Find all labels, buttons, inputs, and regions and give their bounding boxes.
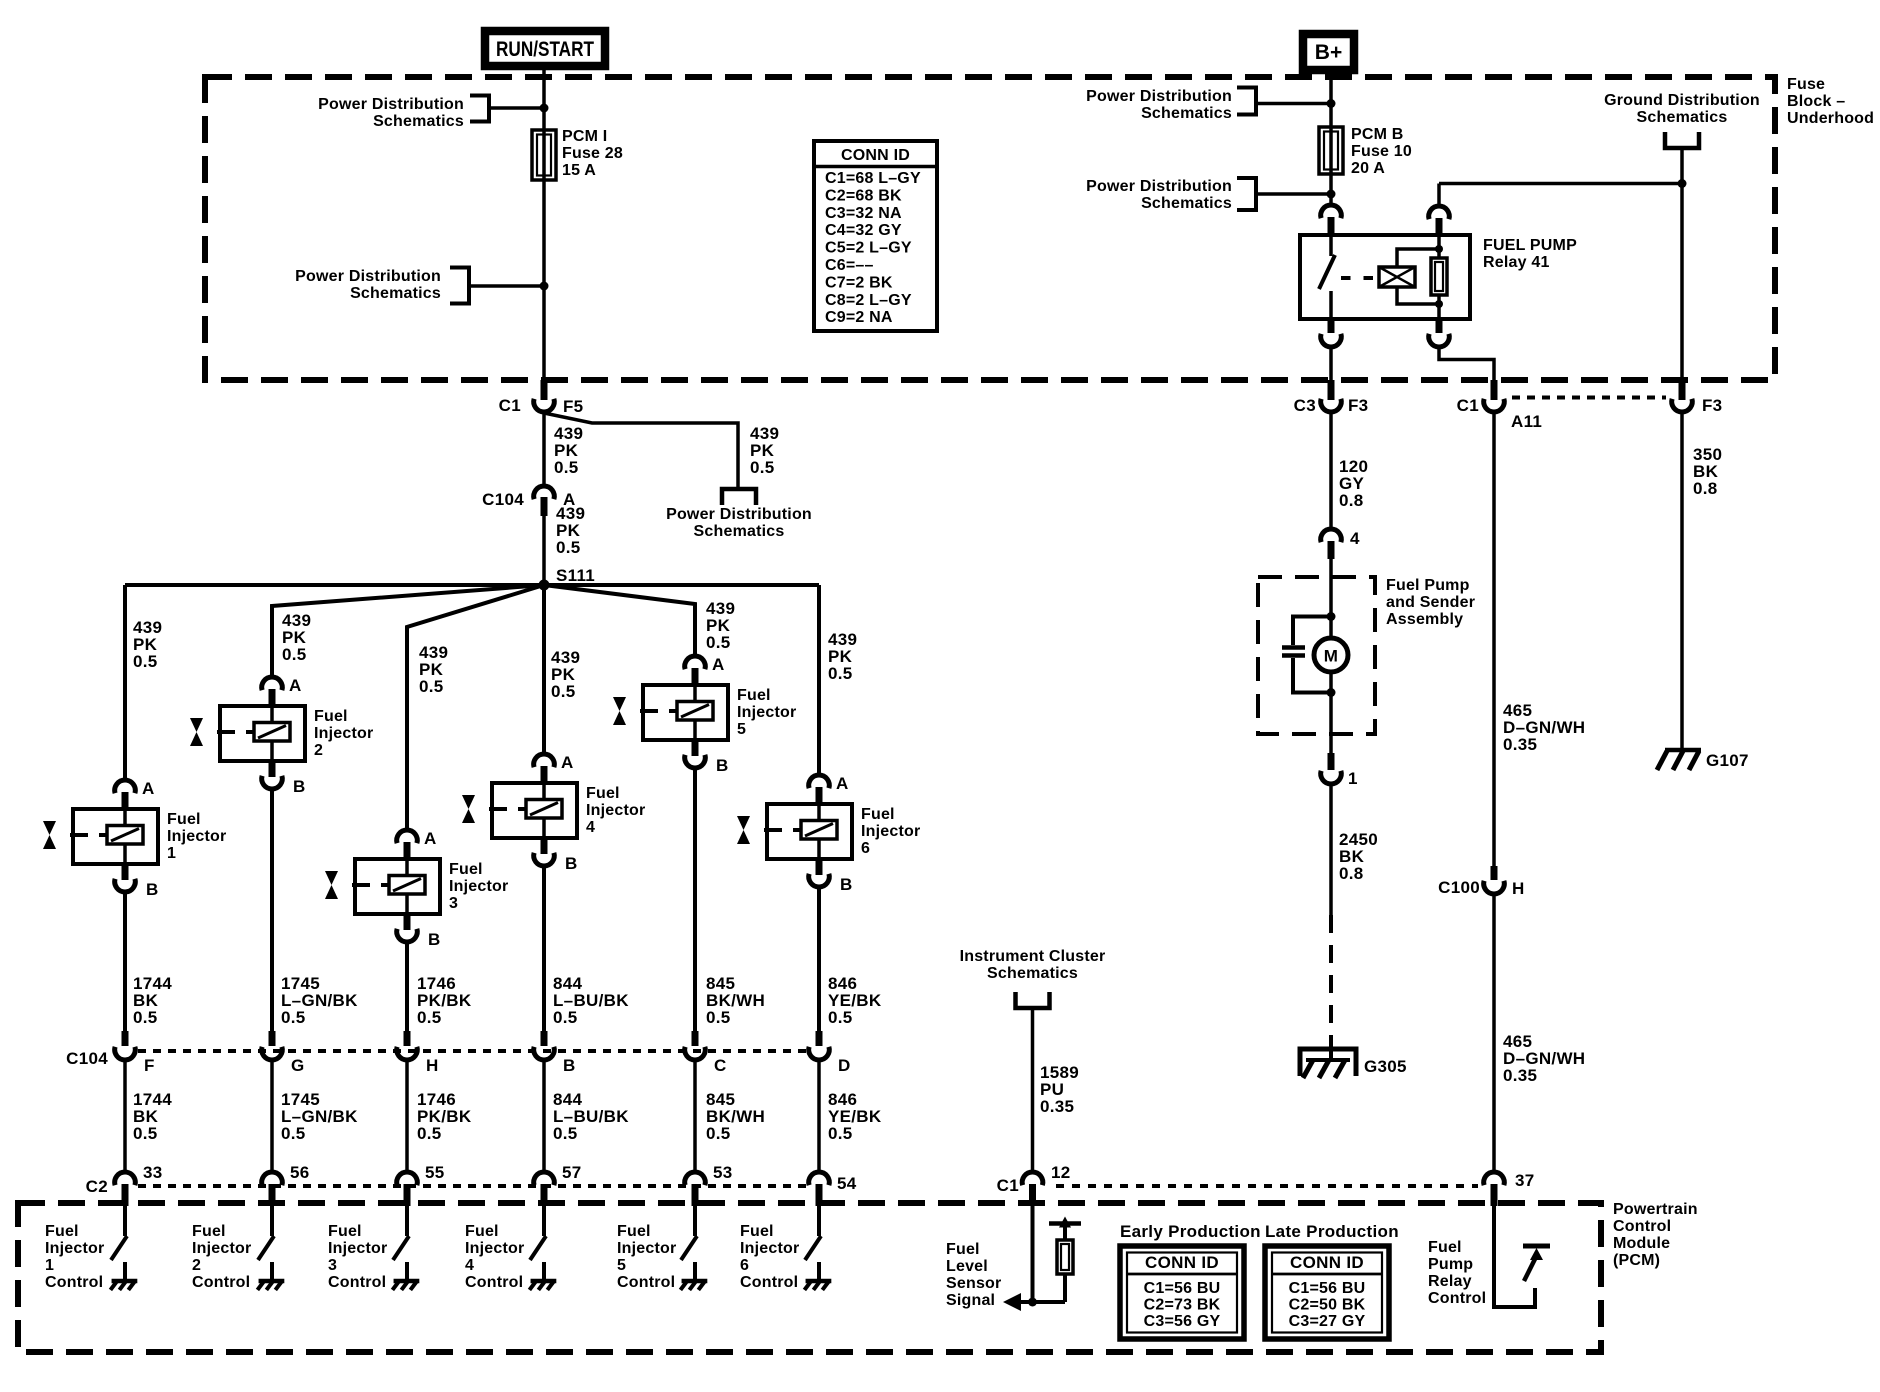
svg-text:Injector: Injector [45,1240,104,1257]
connector line C2 [138,1184,806,1188]
connector C104 pin G [269,1031,276,1046]
svg-text:Fuel: Fuel [328,1223,362,1240]
wire 1589 PU 0.35 [1031,1008,1035,1172]
wire injector 5 to C104 [693,768,697,1031]
svg-text:Fuel: Fuel [192,1223,226,1240]
svg-text:Schematics: Schematics [694,523,785,540]
svg-text:Level: Level [946,1258,988,1275]
relay pin 30 connector (left top) [1321,205,1342,218]
wire 439 PK 0.5 to S111 [542,516,546,585]
svg-text:Fuel: Fuel [465,1223,499,1240]
svg-text:0.5: 0.5 [554,458,579,477]
relay resistor [1437,235,1441,319]
relay switch [1329,235,1333,256]
svg-text:Injector: Injector [314,725,373,742]
connector pin 37 [1484,1172,1505,1185]
svg-text:C100: C100 [1438,878,1480,897]
fuse block underhood dashed box [205,77,1775,380]
svg-text:A: A [712,655,725,674]
svg-text:C8=2 L–GY: C8=2 L–GY [825,292,912,309]
relay pin 85 connector (right bottom) [1436,319,1443,333]
svg-text:Schematics: Schematics [1141,105,1232,122]
svg-text:Schematics: Schematics [987,965,1078,982]
svg-text:G107: G107 [1706,751,1749,770]
PCM fuel injector 3 control driver [328,1206,419,1291]
fuel injector 1 [43,779,226,899]
svg-text:Injector: Injector [586,802,645,819]
svg-text:0.5: 0.5 [133,1008,158,1027]
svg-text:0.5: 0.5 [281,1124,306,1143]
svg-text:B: B [565,854,578,873]
connector C100/H [1491,866,1498,880]
PCM fuel pump relay control driver [1494,1206,1535,1307]
svg-text:Schematics: Schematics [373,113,464,130]
connector C104 pin H [404,1031,411,1046]
svg-text:Control: Control [617,1274,675,1291]
svg-text:B: B [293,777,306,796]
svg-text:0.5: 0.5 [133,652,158,671]
connector line 12 to 37 [1056,1184,1478,1188]
wire RUN/START down to C1 [542,66,546,397]
svg-text:Assembly: Assembly [1386,611,1463,628]
svg-text:Block –: Block – [1787,93,1845,110]
connector 1 (pump return) [1329,734,1333,753]
connector C2 pin 54 [809,1172,830,1185]
svg-text:C1: C1 [1457,396,1479,415]
svg-text:Injector: Injector [465,1240,524,1257]
svg-text:C3=32 NA: C3=32 NA [825,205,902,222]
svg-text:0.5: 0.5 [706,633,731,652]
wire to injector 6 [817,585,821,775]
svg-text:0.5: 0.5 [556,538,581,557]
svg-text:C1=56 BU: C1=56 BU [1289,1280,1366,1297]
svg-text:C7=2 BK: C7=2 BK [825,274,893,291]
svg-text:Control: Control [1613,1218,1671,1235]
dashed ground wire to G305 [1329,915,1333,1046]
svg-text:Fuse: Fuse [1787,76,1825,93]
relay coil loop wiring [1397,249,1439,267]
svg-text:0.8: 0.8 [1339,864,1364,883]
wire B+ down [1329,74,1333,205]
svg-text:5: 5 [617,1257,626,1274]
svg-text:Pump: Pump [1428,1256,1473,1273]
power node RUN/START [485,31,605,66]
svg-text:C2=73 BK: C2=73 BK [1144,1297,1221,1314]
svg-text:4: 4 [1350,529,1360,548]
svg-text:C2: C2 [86,1177,108,1196]
svg-text:Injector: Injector [449,878,508,895]
svg-text:C104: C104 [66,1049,108,1068]
svg-text:0.35: 0.35 [1040,1097,1074,1116]
svg-text:1: 1 [1348,769,1358,788]
svg-text:Relay: Relay [1428,1273,1472,1290]
svg-text:F: F [144,1056,155,1075]
svg-text:RUN/START: RUN/START [496,38,594,61]
wire to RUN/START column [489,106,544,110]
wire to injector 4 [542,585,546,754]
svg-text:B: B [840,875,853,894]
svg-text:0.5: 0.5 [551,682,576,701]
svg-text:Injector: Injector [167,828,226,845]
svg-text:B: B [563,1056,576,1075]
svg-text:Fuel: Fuel [861,806,895,823]
relay pin 86 connector (right top) [1437,184,1441,207]
svg-text:Schematics: Schematics [1637,109,1728,126]
wire injector 3 to C104 [405,942,409,1031]
wire to injector 3 [407,585,544,830]
svg-text:H: H [426,1056,439,1075]
svg-text:Fuel: Fuel [314,708,348,725]
wire 2450 BK 0.8 [1329,784,1333,915]
wire to injector 5 [544,585,695,656]
ground G107 [1665,748,1701,753]
svg-text:Power Distribution: Power Distribution [666,506,812,523]
svg-text:Schematics: Schematics [1141,195,1232,212]
svg-text:0.5: 0.5 [553,1124,578,1143]
wire 350 BK 0.8 [1680,412,1684,750]
svg-text:0.5: 0.5 [828,664,853,683]
svg-text:Control: Control [45,1274,103,1291]
svg-text:Power Distribution: Power Distribution [295,268,441,285]
branch wire to power distribution off-page [544,413,738,489]
powertrain control module dashed box [18,1203,1601,1352]
fuel pump and sender assembly dashed box [1258,577,1375,734]
svg-text:1: 1 [167,845,176,862]
svg-text:D: D [838,1056,851,1075]
wire injector 1 to C104 [123,892,127,1031]
svg-text:Fuel: Fuel [617,1223,651,1240]
svg-text:Fuel: Fuel [449,861,483,878]
svg-text:Late Production: Late Production [1265,1222,1399,1241]
svg-text:0.5: 0.5 [828,1008,853,1027]
svg-text:S111: S111 [556,566,595,585]
svg-text:0.5: 0.5 [419,677,444,696]
svg-text:H: H [1512,879,1525,898]
svg-text:Instrument Cluster: Instrument Cluster [960,948,1106,965]
PCM fuel injector 4 control driver [465,1206,556,1291]
connector C1/F5 [541,380,548,400]
svg-text:0.8: 0.8 [1339,491,1364,510]
wire 465 D-GN/WH 0.35 (lower) [1492,894,1496,1172]
fuel injector 6 [737,774,920,894]
svg-text:5: 5 [737,721,746,738]
svg-text:0.5: 0.5 [282,645,307,664]
connector C104/A [534,486,555,499]
svg-text:Fuel: Fuel [946,1241,980,1258]
wire to injector 1 [123,585,127,780]
svg-text:F5: F5 [563,397,583,416]
wire across to relay coil pin [1439,182,1682,186]
svg-text:Fuel: Fuel [586,785,620,802]
svg-text:Fuse 10: Fuse 10 [1351,143,1412,160]
svg-text:Sensor: Sensor [946,1275,1001,1292]
svg-text:C3=56 GY: C3=56 GY [1144,1313,1221,1330]
connector C104 pin D [816,1031,823,1046]
svg-text:0.5: 0.5 [133,1124,158,1143]
PCM fuel level sensor signal circuit [1031,1206,1035,1302]
junction [540,104,549,113]
svg-text:Early Production: Early Production [1120,1222,1261,1241]
connector line A11 to F3 [1512,396,1666,400]
svg-text:G305: G305 [1364,1057,1407,1076]
svg-text:Control: Control [465,1274,523,1291]
svg-text:A: A [142,779,155,798]
wire S111 horizontal rail [125,583,819,587]
svg-text:Power Distribution: Power Distribution [318,96,464,113]
svg-text:C2=50 BK: C2=50 BK [1289,1297,1366,1314]
svg-text:FUEL PUMP: FUEL PUMP [1483,237,1577,254]
svg-text:C1: C1 [997,1176,1019,1195]
svg-text:C2=68 BK: C2=68 BK [825,187,902,204]
svg-text:and Sender: and Sender [1386,594,1475,611]
svg-text:0.8: 0.8 [1693,479,1718,498]
connector C104 pin C [692,1031,699,1046]
svg-text:Relay 41: Relay 41 [1483,254,1550,271]
wire to injector 2 [272,585,544,677]
svg-text:A: A [424,829,437,848]
svg-text:C: C [714,1056,727,1075]
connector C2 pin 55 [397,1172,418,1185]
PCM fuel injector 2 control driver [192,1206,284,1291]
svg-text:4: 4 [586,819,595,836]
connector F3 (ground) [1679,380,1686,400]
svg-text:Fuel: Fuel [740,1223,774,1240]
svg-text:PCM I: PCM I [562,128,607,145]
svg-text:0.5: 0.5 [417,1124,442,1143]
svg-text:Control: Control [1428,1290,1486,1307]
svg-text:PCM B: PCM B [1351,126,1404,143]
relay coil (box with X) [1379,267,1415,287]
PCM fuel injector 6 control driver [740,1206,831,1291]
svg-text:A11: A11 [1511,412,1542,431]
svg-text:B: B [146,880,159,899]
wire to RUN/START column [469,284,544,288]
svg-text:C9=2 NA: C9=2 NA [825,309,893,326]
svg-text:Fuse 28: Fuse 28 [562,145,623,162]
relay FUEL PUMP Relay 41 box [1300,235,1470,319]
connector C1 pin 12 [1022,1172,1043,1185]
svg-text:6: 6 [861,840,870,857]
svg-text:B: B [716,756,729,775]
svg-text:1: 1 [45,1257,54,1274]
connector C2 pin 56 [262,1172,283,1185]
svg-text:0.5: 0.5 [706,1008,731,1027]
svg-text:56: 56 [290,1163,310,1182]
svg-text:A: A [836,774,849,793]
wire 465 D-GN/WH 0.35 (upper) [1492,412,1496,866]
svg-text:0.35: 0.35 [1503,735,1537,754]
svg-text:C3: C3 [1294,396,1316,415]
wire injector 6 to C104 [817,887,821,1031]
svg-text:CONN ID: CONN ID [1290,1253,1364,1272]
svg-text:C1=56 BU: C1=56 BU [1144,1280,1221,1297]
svg-text:Injector: Injector [192,1240,251,1257]
svg-text:Power Distribution: Power Distribution [1086,88,1232,105]
svg-text:CONN ID: CONN ID [1145,1253,1219,1272]
svg-text:Injector: Injector [861,823,920,840]
svg-text:M: M [1324,647,1338,666]
connector C1/A11 [1491,380,1498,400]
fuse PCM B Fuse 10 20A [1319,127,1343,174]
junction [540,282,549,291]
wire injector 4 to C104 [542,866,546,1031]
svg-text:6: 6 [740,1257,749,1274]
svg-text:Fuel: Fuel [45,1223,79,1240]
svg-text:15 A: 15 A [562,162,596,179]
svg-text:Power Distribution: Power Distribution [1086,178,1232,195]
fuel injector 2 [190,676,373,796]
connector line C104 [138,1049,806,1053]
svg-text:0.5: 0.5 [417,1008,442,1027]
svg-text:B: B [428,930,441,949]
connector C3/F3 [1328,380,1335,400]
connector C104 pin F [122,1031,129,1046]
connector C104 pin B [541,1031,548,1046]
svg-text:Powertrain: Powertrain [1613,1201,1698,1218]
wire 120 GY 0.8 [1329,412,1333,529]
svg-text:Control: Control [740,1274,798,1291]
svg-text:2: 2 [314,742,323,759]
fuse PCM I Fuse 28 15A [532,130,556,180]
svg-text:F3: F3 [1702,396,1722,415]
svg-text:0.5: 0.5 [281,1008,306,1027]
svg-text:53: 53 [713,1163,733,1182]
svg-text:Fuel Pump: Fuel Pump [1386,577,1470,594]
svg-text:CONN ID: CONN ID [841,147,910,164]
PCM fuel injector 5 control driver [617,1206,707,1291]
svg-text:F3: F3 [1348,396,1368,415]
svg-text:54: 54 [837,1174,857,1193]
connector C2 pin 33 [115,1172,136,1185]
junction [1678,179,1687,188]
svg-text:Fuel: Fuel [167,811,201,828]
svg-text:57: 57 [562,1163,582,1182]
svg-text:0.5: 0.5 [828,1124,853,1143]
PCM fuel injector 1 control driver [45,1206,137,1291]
wire injector 2 to C104 [270,789,274,1031]
connector C2 pin 57 [534,1172,555,1185]
svg-text:0.5: 0.5 [706,1124,731,1143]
svg-text:A: A [561,753,574,772]
svg-text:Injector: Injector [328,1240,387,1257]
svg-text:20 A: 20 A [1351,160,1385,177]
fuel injector 5 [613,655,796,775]
relay dashed actuator link [1341,276,1375,280]
svg-text:C5=2 L–GY: C5=2 L–GY [825,240,912,257]
svg-text:Injector: Injector [740,1240,799,1257]
fuel injector 3 [325,829,508,949]
fuel injector 4 [462,753,645,873]
svg-text:12: 12 [1051,1163,1071,1182]
svg-text:3: 3 [328,1257,337,1274]
svg-text:2: 2 [192,1257,201,1274]
connector C2 pin 53 [685,1172,706,1185]
svg-text:C4=32 GY: C4=32 GY [825,222,902,239]
svg-text:B+: B+ [1315,41,1342,64]
svg-text:Signal: Signal [946,1292,995,1309]
svg-text:Fuel: Fuel [1428,1239,1462,1256]
svg-text:3: 3 [449,895,458,912]
CONN ID table (fuse block) [814,141,937,331]
power node B+ [1303,34,1354,70]
relay pin 87 connector (left bottom) [1328,319,1335,333]
svg-text:Injector: Injector [737,704,796,721]
svg-text:C1: C1 [499,396,521,415]
svg-text:Underhood: Underhood [1787,110,1874,127]
svg-text:0.5: 0.5 [750,458,775,477]
svg-text:A: A [289,676,302,695]
splice S111 [539,580,550,591]
connector 4 (pump) [1321,529,1342,542]
svg-text:Control: Control [328,1274,386,1291]
svg-text:0.35: 0.35 [1503,1066,1537,1085]
svg-text:Fuel: Fuel [737,687,771,704]
svg-text:C6=––: C6=–– [825,257,874,274]
svg-text:C3=27 GY: C3=27 GY [1289,1313,1366,1330]
svg-text:55: 55 [425,1163,445,1182]
svg-text:Injector: Injector [617,1240,676,1257]
svg-text:C104: C104 [482,490,524,509]
svg-text:Ground Distribution: Ground Distribution [1604,92,1760,109]
svg-text:(PCM): (PCM) [1613,1252,1660,1269]
svg-text:33: 33 [143,1163,163,1182]
svg-text:G: G [291,1056,305,1075]
svg-text:Control: Control [192,1274,250,1291]
svg-text:0.5: 0.5 [553,1008,578,1027]
svg-text:C1=68 L–GY: C1=68 L–GY [825,170,921,187]
wire ground distribution down [1680,148,1684,382]
wire 439 PK 0.5 [542,412,546,486]
ground G305 [1300,1049,1356,1076]
svg-text:Schematics: Schematics [350,285,441,302]
pump motor M [1329,577,1333,638]
svg-text:Module: Module [1613,1235,1670,1252]
svg-text:4: 4 [465,1257,474,1274]
svg-text:37: 37 [1515,1171,1535,1190]
pump capacitor [1327,612,1336,621]
